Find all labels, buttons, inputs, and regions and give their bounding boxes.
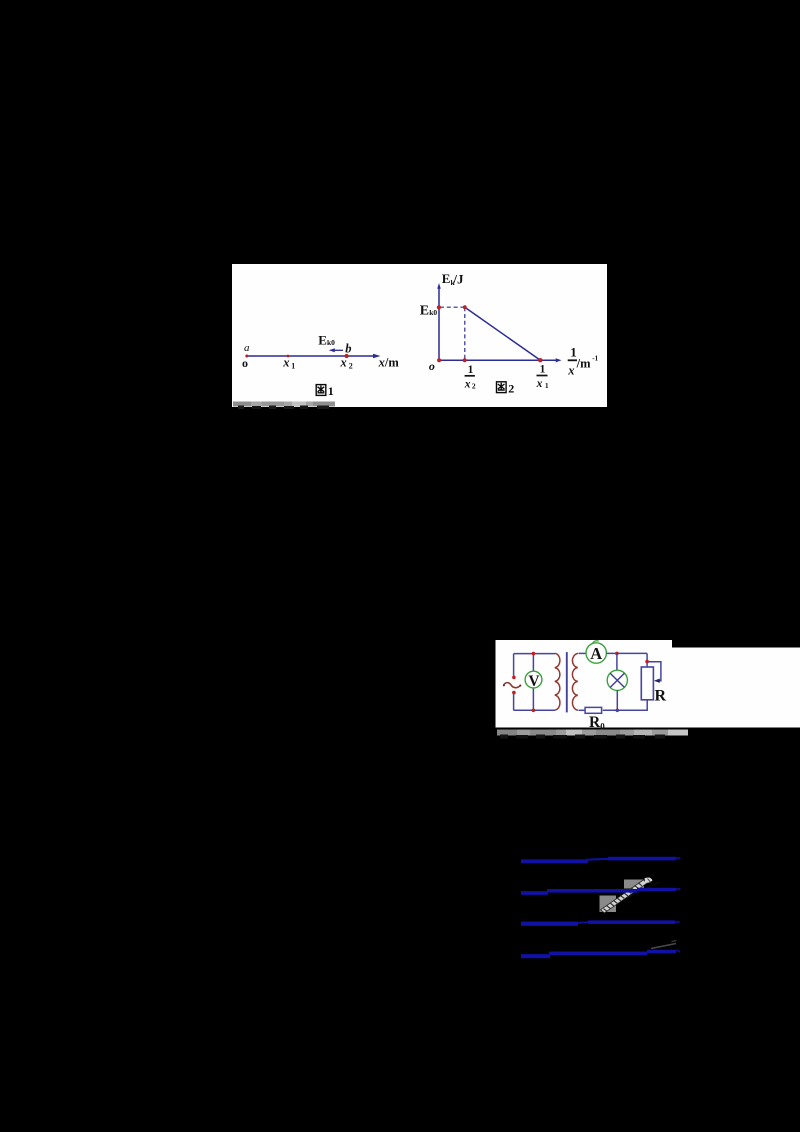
lamp — [607, 670, 627, 690]
svg-text:2: 2 — [508, 381, 514, 395]
caption 图2 — [497, 382, 507, 393]
svg-text:o: o — [242, 356, 248, 370]
wire lamp top — [616, 653, 618, 670]
pencil checker block lower — [600, 896, 617, 913]
dashed line 1/x2 vertical — [464, 307, 466, 359]
svg-text:x: x — [340, 356, 347, 370]
dashed line Ek0 horizontal — [440, 306, 465, 308]
y axis fig2 — [438, 288, 440, 360]
svg-text:x: x — [464, 378, 471, 390]
svg-text:0: 0 — [600, 721, 605, 731]
x axis line fig1 — [247, 355, 376, 357]
svg-text:E: E — [318, 332, 327, 347]
graph sloped line — [465, 307, 541, 360]
pencil body — [601, 880, 648, 913]
green sprout above ammeter — [593, 641, 599, 644]
faint grey mark above line 4 — [651, 944, 676, 949]
smudge strip under figure panel — [233, 402, 335, 410]
pencil hatching — [604, 883, 642, 912]
svg-text:k0: k0 — [327, 338, 335, 347]
junction dot rheostat top — [645, 660, 649, 664]
wire lamp bottom — [616, 690, 618, 710]
svg-text:1: 1 — [291, 362, 295, 371]
svg-text:R: R — [655, 688, 667, 705]
svg-text:x: x — [536, 378, 543, 390]
junction dot V bottom — [532, 709, 536, 713]
wire primary bottom — [514, 709, 555, 711]
svg-text:2: 2 — [472, 382, 476, 391]
dot 1/x2 on x axis — [463, 358, 467, 362]
wire secondary top left — [579, 652, 587, 654]
svg-text:/m: /m — [576, 356, 591, 370]
junction dot V top — [532, 652, 536, 656]
svg-text:E: E — [420, 303, 429, 318]
pencil checker block upper — [624, 880, 644, 889]
svg-text:x: x — [282, 356, 289, 370]
svg-text:2: 2 — [349, 362, 353, 371]
transformer primary coil — [555, 653, 560, 710]
svg-text:E: E — [442, 271, 451, 286]
dot Ek0 on y axis — [437, 305, 441, 309]
answer line 4 — [521, 954, 550, 958]
svg-text:a: a — [244, 342, 250, 354]
svg-text:o: o — [429, 359, 435, 373]
answer line 2 — [521, 891, 548, 895]
svg-text:-1: -1 — [592, 354, 598, 362]
wire secondary bottom left — [579, 709, 586, 711]
svg-text:R: R — [589, 714, 601, 731]
ac source terminal dot top — [512, 676, 516, 680]
transformer secondary coil — [572, 653, 578, 710]
wire voltmeter branch — [532, 654, 534, 711]
resistor R0 body — [585, 707, 602, 713]
wire secondary top right — [606, 652, 647, 654]
answer line 1 — [521, 859, 588, 863]
ac source terminal dot bottom — [512, 691, 516, 695]
node origin dot fig1 — [245, 355, 248, 358]
wire rheostat down — [646, 653, 648, 667]
svg-text:x/m: x/m — [378, 355, 400, 369]
svg-text:/J: /J — [452, 271, 464, 286]
voltmeter V — [525, 671, 542, 688]
node x2 dot — [345, 354, 349, 358]
svg-text:V: V — [528, 673, 540, 690]
pencil shadow line — [601, 882, 659, 910]
ac source tilde — [504, 683, 521, 688]
wire primary top — [514, 653, 555, 655]
svg-text:k0: k0 — [429, 308, 437, 317]
svg-text:1: 1 — [545, 381, 549, 390]
caption 图1 — [316, 385, 326, 396]
wire secondary bottom right — [603, 700, 647, 711]
node x1 dot — [287, 355, 290, 358]
white panel figure1+figure2 — [232, 264, 607, 407]
x axis fig2 — [439, 359, 557, 361]
rheostat R body — [641, 667, 653, 700]
svg-text:x: x — [567, 364, 574, 378]
pencil tip sparkle — [645, 878, 653, 883]
svg-text:1: 1 — [540, 363, 546, 375]
svg-text:b: b — [345, 342, 351, 356]
svg-text:A: A — [590, 644, 602, 663]
junction dot lamp bottom — [616, 709, 620, 713]
Ek0 force arrow (points left) — [333, 349, 344, 351]
ammeter A — [586, 643, 606, 663]
dot corner point — [463, 305, 467, 309]
rheostat slider arm — [647, 662, 661, 681]
smudge strip under circuit panel — [497, 730, 688, 739]
x axis arrowhead fig1 — [373, 354, 381, 358]
white panel circuit — [496, 640, 800, 728]
dot origin fig2 — [437, 358, 441, 362]
svg-text:1: 1 — [468, 364, 474, 376]
wire primary left (with source gap) — [513, 654, 515, 676]
answer line 3 — [521, 922, 578, 926]
junction dot lamp top — [615, 652, 619, 656]
svg-text:1: 1 — [328, 384, 334, 398]
transformer core — [566, 652, 568, 712]
dot 1/x1 on x axis — [538, 358, 542, 362]
